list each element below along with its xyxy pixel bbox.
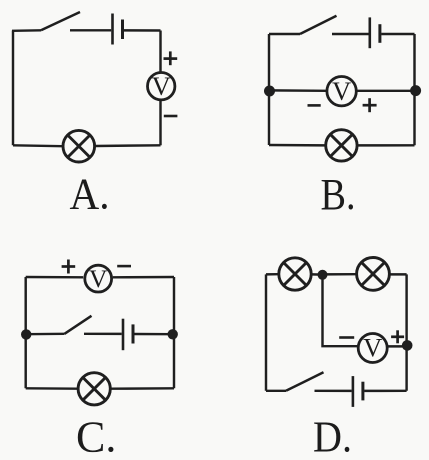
- svg-text:V: V: [152, 71, 171, 101]
- circuit A: bottom wire right segment: [96, 144, 161, 147]
- circuit B: battery short plate (-): [378, 24, 381, 43]
- circuit B: switch blade: [300, 16, 337, 34]
- circuit C: top wire left segment: [26, 276, 83, 279]
- circuit D: battery long plate (+): [352, 376, 355, 407]
- circuit A: left wire: [12, 31, 14, 146]
- circuit D: voltmeter body: [358, 334, 387, 363]
- svg-text:B.: B.: [321, 170, 356, 219]
- circuit B: voltmeter body: [327, 77, 356, 106]
- svg-text:V: V: [332, 76, 351, 106]
- circuit A: minus polarity mark of voltmeter: [164, 115, 178, 118]
- circuit D: bottom wire right segment: [364, 390, 406, 393]
- circuit D: top wire segment between junction and lamp 2: [323, 273, 356, 276]
- circuit D: lamp 1 (circle with X): [279, 258, 311, 290]
- circuit B: lamp (circle with X): [326, 130, 357, 161]
- circuit C: plus polarity mark of voltmeter: [62, 260, 76, 274]
- circuit D: switch blade: [286, 372, 324, 391]
- circuit C: voltmeter body: [85, 265, 112, 292]
- circuit B: middle wire left segment: [269, 89, 327, 92]
- circuit A: bottom wire left segment: [13, 144, 62, 147]
- circuit D: bottom wire left segment: [266, 390, 286, 392]
- circuit C: middle wire middle segment (switch to battery): [84, 333, 122, 336]
- circuit C: minus polarity mark of voltmeter: [117, 265, 131, 268]
- circuit C: battery short plate (-): [132, 324, 135, 343]
- circuit C: bottom wire left segment: [26, 387, 77, 390]
- circuit C: top wire right segment: [113, 276, 174, 279]
- circuit D: battery short plate (-): [361, 382, 364, 401]
- circuit B: middle wire right segment: [357, 90, 415, 92]
- circuit B: minus polarity mark of voltmeter: [308, 104, 321, 107]
- circuit D: bottom wire middle segment (switch to battery): [315, 390, 352, 393]
- circuit B: top wire left segment: [269, 33, 300, 35]
- circuit A: top wire middle segment (switch to battery): [70, 29, 111, 31]
- circuit C: left wire: [24, 277, 26, 388]
- circuit A: top wire right segment (battery to corner): [124, 29, 161, 32]
- circuit A: right wire lower segment: [159, 101, 161, 146]
- circuit D: left wire: [265, 274, 267, 390]
- circuit D: branch wire from junction down to voltmeter row: [323, 275, 359, 346]
- circuit C: middle wire left stub: [26, 333, 65, 336]
- svg-text:A.: A.: [70, 170, 110, 219]
- svg-text:C.: C.: [76, 413, 116, 460]
- circuit C: junction dot right: [168, 329, 178, 339]
- circuit A: battery short plate (-): [121, 20, 124, 40]
- circuit B: top wire right segment (battery to corner): [381, 33, 414, 35]
- circuit B: battery long plate (+): [368, 17, 371, 48]
- circuit B: bottom wire left segment: [269, 144, 325, 147]
- svg-text:D.: D.: [313, 413, 352, 460]
- circuit A: battery long plate (+): [111, 14, 114, 45]
- circuit D: right wire: [405, 274, 407, 390]
- circuit D: lamp 2 (circle with X): [357, 258, 390, 291]
- circuit D: top wire right segment: [390, 273, 406, 275]
- circuit C: right wire: [173, 277, 175, 388]
- circuit C: junction dot left: [21, 329, 31, 339]
- circuit D: top wire segment between lamp 1 and junction: [312, 273, 322, 276]
- circuit B: junction dot left: [264, 86, 275, 97]
- circuit B: bottom wire right segment: [358, 144, 415, 147]
- circuit C: battery long plate (+): [122, 319, 125, 351]
- circuit A: voltmeter body: [148, 73, 175, 100]
- circuit C: bottom wire right segment: [111, 387, 174, 390]
- circuit D: junction dot right: [402, 340, 413, 351]
- circuit A: right wire upper segment: [159, 31, 161, 73]
- circuit B: left wire: [268, 34, 270, 145]
- circuit C: middle wire right segment: [134, 333, 174, 336]
- circuit B: junction dot right: [410, 85, 421, 96]
- circuit B: plus polarity mark of voltmeter: [363, 98, 377, 112]
- svg-text:V: V: [363, 333, 382, 363]
- circuit A: lamp (circle with X): [63, 130, 95, 162]
- svg-text:V: V: [89, 264, 108, 293]
- circuit C: switch blade: [65, 316, 92, 334]
- circuit B: top wire middle segment (switch to battery): [332, 33, 369, 35]
- circuit A: switch blade: [41, 12, 80, 30]
- circuit A: top wire left segment: [12, 29, 41, 32]
- circuit B: right wire: [413, 34, 415, 145]
- circuit D: top wire left stub: [266, 273, 278, 276]
- circuit C: lamp (circle with X): [78, 373, 110, 405]
- circuit D: junction dot top: [318, 270, 328, 280]
- circuit D: minus polarity mark of voltmeter: [339, 336, 354, 339]
- circuit A: plus polarity mark of voltmeter: [164, 51, 178, 65]
- circuit D: wire from voltmeter to right wire: [388, 345, 407, 347]
- circuit D: plus polarity mark of voltmeter: [391, 330, 404, 343]
